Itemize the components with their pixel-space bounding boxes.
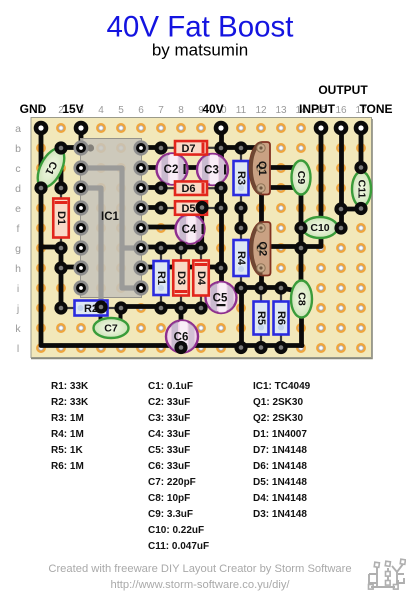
wire IC col6-f to C4 left: [141, 225, 181, 230]
svg-text:IC1: IC1: [101, 211, 120, 223]
svg-text:R1: R1: [155, 271, 167, 285]
capacitor C1: [32, 145, 70, 192]
wire C8 bottom to row l: [299, 315, 304, 346]
IC1 pin-1 mark: [87, 144, 94, 151]
svg-text:C8: 10pF: C8: 10pF: [148, 493, 190, 504]
svg-text:R6: R6: [275, 311, 287, 325]
resistor R1: [154, 248, 169, 308]
wire col2-b to col3-b: [61, 145, 81, 150]
svg-text:d: d: [15, 183, 21, 195]
capacitor C7: [94, 318, 129, 338]
wire row g col6-col9: [141, 245, 201, 250]
hole grid: [37, 124, 364, 351]
wire row i col11-col13: [241, 285, 281, 290]
IC1 pins: [73, 140, 148, 295]
resistor R4: [234, 228, 249, 288]
wire IC col6-c to C2: [141, 165, 161, 170]
perfboard: [31, 118, 372, 358]
capacitor C11 leads: [360, 168, 362, 175]
svg-text:C1: 0.1uF: C1: 0.1uF: [148, 381, 193, 392]
capacitor C5 (electrolytic): [206, 282, 237, 313]
svg-text:D4: 1N4148: D4: 1N4148: [253, 493, 307, 504]
capacitor C9: [292, 161, 311, 195]
row letters: [15, 123, 21, 355]
svg-text:5: 5: [118, 105, 124, 116]
svg-text:C10: C10: [310, 222, 329, 234]
svg-text:k: k: [15, 323, 21, 335]
svg-text:http://www.storm-software.co.y: http://www.storm-software.co.yu/diy/: [110, 579, 290, 591]
svg-text:Q1: 2SK30: Q1: 2SK30: [253, 397, 303, 408]
svg-text:11: 11: [236, 105, 247, 116]
wire col2 g-j: [59, 248, 64, 308]
capacitor C2 (electrolytic): [157, 154, 188, 185]
capacitor C4 (electrolytic): [176, 215, 205, 244]
svg-text:D7: 1N4148: D7: 1N4148: [253, 445, 307, 456]
capacitor C11: [352, 172, 371, 207]
svg-text:Q2: Q2: [257, 241, 269, 256]
svg-text:13: 13: [275, 105, 287, 116]
svg-text:OUTPUT: OUTPUT: [318, 83, 368, 97]
transistor Q2 (2SK30): [250, 222, 270, 276]
svg-text:C9: 3.3uF: C9: 3.3uF: [148, 509, 193, 520]
wire row g col1-col2: [41, 245, 61, 250]
svg-text:C6: 33uF: C6: 33uF: [148, 461, 190, 472]
svg-text:C11: C11: [356, 180, 368, 199]
svg-text:R5: 1K: R5: 1K: [51, 445, 83, 456]
svg-text:h: h: [15, 263, 21, 275]
svg-text:b: b: [15, 143, 21, 155]
resistor R6: [274, 288, 289, 348]
svg-text:R5: R5: [255, 311, 267, 325]
wire row h col6-col10: [141, 265, 222, 270]
transistor Q1 (2SK30): [249, 142, 270, 195]
wire IC col6-d to col7-d: [141, 185, 161, 190]
svg-text:C9: C9: [295, 171, 307, 185]
wire row b col10-col12 (to Q1): [221, 145, 261, 150]
svg-text:D3: D3: [175, 271, 187, 285]
wire C7 left lead: [99, 305, 103, 319]
wire col17 a to C11: [359, 128, 364, 168]
svg-text:Created with freeware DIY Layo: Created with freeware DIY Layout Creator…: [48, 563, 351, 575]
diode D3: [173, 248, 189, 308]
wire col12 h-i: [259, 268, 264, 288]
gray trace pin3c to pins g,i: [81, 168, 141, 288]
wire col14 C9 to C10 to C8: [299, 188, 304, 283]
wire col9 e-g (under C4): [200, 208, 204, 248]
svg-text:e: e: [15, 203, 21, 215]
capacitor C3 (electrolytic): [197, 154, 228, 185]
svg-text:C5: 33uF: C5: 33uF: [148, 445, 190, 456]
resistor R2: [61, 301, 121, 316]
gray trace pin d to col4-j: [81, 188, 101, 307]
board shadow: [31, 119, 372, 359]
svg-text:a: a: [15, 123, 21, 135]
capacitor C6 (electrolytic): [166, 321, 198, 353]
svg-text:f: f: [17, 223, 20, 235]
svg-text:C7: C7: [104, 323, 118, 335]
capacitor C10: [303, 217, 338, 238]
diode D7: [161, 141, 221, 155]
wire GND bus col1 + row l: [41, 128, 302, 346]
svg-text:R3: 1M: R3: 1M: [51, 413, 84, 424]
svg-text:C3: C3: [204, 165, 219, 177]
wire col13-i to C8: [281, 288, 295, 291]
svg-text:R4: R4: [235, 251, 247, 266]
svg-text:40V: 40V: [202, 102, 223, 116]
svg-text:D1: D1: [55, 211, 67, 225]
svg-text:6: 6: [138, 105, 144, 116]
wire Q1-c to C9 top: [261, 165, 298, 170]
capacitor C8: [291, 281, 312, 318]
svg-text:j: j: [16, 303, 19, 315]
svg-text:C4: 33uF: C4: 33uF: [148, 429, 190, 440]
svg-text:R6: 1M: R6: 1M: [51, 461, 84, 472]
svg-text:i: i: [17, 283, 19, 295]
svg-text:C7: 220pF: C7: 220pF: [148, 477, 196, 488]
svg-text:8: 8: [178, 105, 184, 116]
resistor R5: [254, 288, 269, 348]
wire row c col8-col9 (C2 to C3): [181, 165, 201, 170]
svg-text:C2: C2: [164, 164, 179, 176]
svg-text:c: c: [15, 163, 20, 175]
diy logo: [369, 564, 404, 587]
svg-text:g: g: [15, 243, 21, 255]
svg-text:C3: 33uF: C3: 33uF: [148, 413, 190, 424]
svg-text:D5: 1N4148: D5: 1N4148: [253, 477, 307, 488]
op-amp IC1 body (TC4049): [81, 139, 142, 298]
resistor R3: [234, 148, 249, 208]
diode D5: [161, 201, 221, 215]
svg-text:l: l: [17, 343, 19, 355]
svg-text:12: 12: [255, 105, 267, 116]
svg-text:D5: D5: [181, 203, 195, 215]
wire INPUT col15 a-g to Q2: [263, 128, 321, 247]
svg-text:16: 16: [335, 105, 347, 116]
svg-text:C10: 0.22uF: C10: 0.22uF: [148, 525, 204, 536]
wire 40V rail col10 a-e to C5: [219, 128, 224, 283]
wire IC col6-e to col7-e: [141, 205, 161, 210]
svg-text:Q2: 2SK30: Q2: 2SK30: [253, 413, 303, 424]
component list: [51, 381, 311, 552]
svg-text:D7: D7: [181, 143, 195, 155]
svg-text:R4: 1M: R4: 1M: [51, 429, 84, 440]
svg-text:IC1: TC4049: IC1: TC4049: [253, 381, 311, 392]
diode D4: [193, 248, 209, 308]
svg-text:C4: C4: [182, 224, 197, 236]
svg-text:15V: 15V: [62, 102, 83, 116]
wire row j col5-col9: [121, 304, 201, 309]
wire col8 j to C6: [179, 308, 184, 323]
svg-text:by matsumin: by matsumin: [152, 41, 248, 60]
svg-text:R2: 33K: R2: 33K: [51, 397, 89, 408]
svg-text:D4: D4: [195, 271, 207, 286]
svg-text:R1: 33K: R1: 33K: [51, 381, 89, 392]
svg-text:TONE: TONE: [359, 102, 392, 116]
connection pads: [34, 121, 369, 136]
wire col11 i-l: [239, 288, 244, 348]
wire col16 a-f: [339, 128, 344, 228]
svg-text:7: 7: [158, 105, 164, 116]
diode D1: [53, 188, 69, 248]
svg-text:R3: R3: [235, 171, 247, 185]
svg-text:C2: 33uF: C2: 33uF: [148, 397, 190, 408]
svg-text:D1: 1N4007: D1: 1N4007: [253, 429, 307, 440]
wire IC pin col3-h to col2-h: [61, 265, 81, 270]
diode D6: [161, 181, 221, 195]
svg-text:D6: 1N4148: D6: 1N4148: [253, 461, 307, 472]
wire IC col6-b to col7-b: [141, 145, 161, 150]
svg-text:4: 4: [98, 105, 104, 116]
svg-text:D3: 1N4148: D3: 1N4148: [253, 509, 307, 520]
wire col16-e to C11 bottom: [341, 207, 361, 212]
wire 15V pad to IC pin1: [79, 128, 84, 147]
solder dots: [34, 141, 367, 354]
svg-text:INPUT: INPUT: [299, 102, 336, 116]
wire col2 b-d (under C1): [59, 148, 64, 188]
wire Q1-d to C9 bottom: [261, 185, 299, 190]
wire col11 e-f: [239, 208, 244, 228]
svg-text:C8: C8: [296, 292, 308, 306]
svg-text:Q1: Q1: [256, 161, 268, 176]
column numbers: [38, 105, 367, 116]
svg-text:D6: D6: [181, 183, 195, 195]
wire col12 d-f (Q1 to Q2): [259, 188, 264, 228]
svg-text:C11: 0.047uF: C11: 0.047uF: [148, 541, 209, 552]
svg-text:40V Fat Boost: 40V Fat Boost: [107, 11, 294, 44]
svg-text:C5: C5: [213, 293, 228, 305]
svg-text:GND: GND: [20, 102, 47, 116]
wire C7 right lead: [119, 308, 123, 319]
